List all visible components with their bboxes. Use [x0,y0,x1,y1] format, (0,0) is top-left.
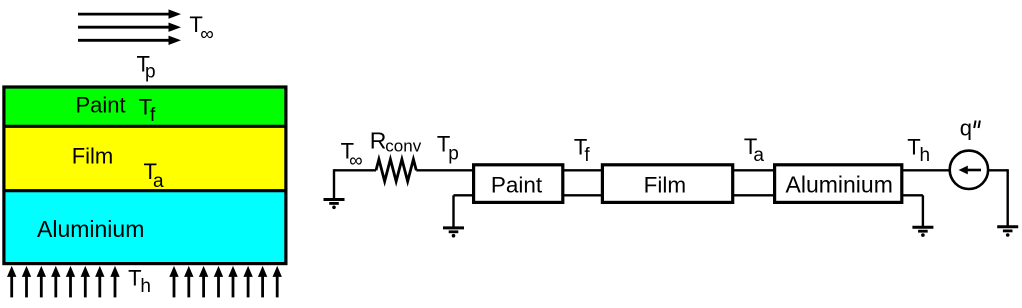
wire pair Paint to Film (lower) [563,194,602,196]
ground (T_infinity node) [324,169,345,209]
svg-text:a: a [153,171,164,192]
resistor block Paint [474,165,563,203]
label R_conv [370,128,422,156]
layer boundary paint/film [4,125,286,128]
flow arrow (top, 3) [78,36,181,45]
node label T_f [574,135,591,166]
flow arrow (top, 2) [78,23,181,32]
svg-text:Aluminium: Aluminium [786,171,893,197]
resistor block Aluminium [775,165,902,203]
svg-text:f: f [584,145,590,166]
label T_infinity (top) [189,12,213,45]
aluminium layer (cyan) [4,191,286,264]
svg-text:p: p [145,61,156,82]
resistor R_conv [376,159,416,181]
layer stack outline [4,87,286,264]
label T_p (top) [137,52,156,83]
svg-text:h: h [920,145,931,166]
svg-text:conv: conv [385,137,421,156]
ground (below Aluminium) [903,195,933,237]
svg-text:Film: Film [644,172,686,197]
svg-text:q: q [960,115,972,140]
svg-text:h: h [140,276,151,297]
wire pair Paint to Film (upper) [563,169,602,171]
ground (right, below current source) [997,227,1018,237]
label T_a (layer) [144,159,165,192]
svg-text:p: p [448,144,459,165]
resistor block Film [602,165,732,203]
svg-text:Film: Film [72,144,114,169]
node label T_infinity [341,139,363,172]
wire pair Film to Aluminium (lower) [733,194,776,196]
svg-text:Paint: Paint [491,172,543,197]
film layer (yellow) [4,126,286,190]
wire resistor to Paint block [416,169,474,171]
wire Aluminium to current source [902,169,949,171]
svg-text:f: f [150,105,156,126]
flow arrow (top, 1) [78,9,181,18]
label T_h (bottom) [128,265,151,297]
node label T_a [744,134,765,166]
label T_f (layer) [139,95,156,127]
wire pair Film to Aluminium (upper) [733,169,776,171]
ground (below Paint) [443,195,472,237]
wire current source to right ground [988,169,1008,226]
node label T_p [437,132,459,165]
node label T_h [907,134,930,166]
svg-text:Paint: Paint [76,93,126,118]
svg-text:a: a [753,145,764,166]
svg-text:∞: ∞ [200,24,214,45]
wire T_infinity to resistor [334,169,376,171]
paint layer (green) [4,87,286,126]
current source q'' [950,151,988,189]
heat flux arrows (bottom left group) [7,266,120,298]
layer boundary film/aluminium [4,189,286,192]
heat flux arrows (bottom right group) [169,266,282,298]
svg-text:∞: ∞ [349,151,363,172]
label q'' [960,115,980,140]
svg-text:R: R [370,128,387,154]
svg-text:Aluminium: Aluminium [37,216,144,242]
